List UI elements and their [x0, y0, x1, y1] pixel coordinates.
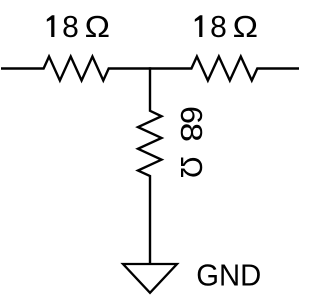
svg-text:Ω: Ω: [85, 9, 110, 44]
svg-text:Ω: Ω: [174, 156, 209, 178]
svg-text:8: 8: [210, 9, 227, 44]
svg-text:8: 8: [62, 9, 79, 44]
svg-text:GND: GND: [196, 258, 261, 293]
svg-text:Ω: Ω: [233, 9, 258, 44]
svg-text:6: 6: [174, 106, 209, 124]
svg-text:8: 8: [174, 123, 209, 142]
